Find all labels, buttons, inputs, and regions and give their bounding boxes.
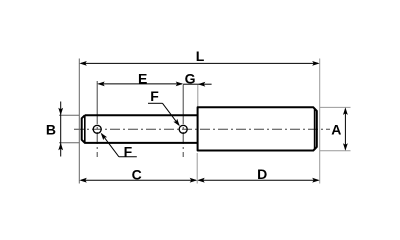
hole F left [93, 125, 101, 133]
dimension G line [183, 82, 211, 87]
pin small cylinder body [82, 115, 198, 143]
dimension A line [343, 107, 348, 150]
svg-text:B: B [46, 122, 56, 138]
node hole centerline right [182, 85, 184, 113]
dimension C line [79, 178, 197, 183]
pin large cylinder body [198, 107, 317, 150]
label F lower with leader [101, 133, 137, 160]
wire extension line right (L/D) [319, 59, 321, 184]
hole F right [179, 125, 187, 133]
wire extension line B top [59, 114, 79, 116]
wire centerline horizontal axis [74, 128, 330, 130]
wire extension line G right [197, 84, 199, 107]
node hole centerline left [96, 81, 98, 112]
svg-text:G: G [185, 71, 196, 87]
svg-text:D: D [257, 166, 267, 182]
svg-text:C: C [132, 167, 142, 183]
pin large cylinder chamfer junction line [314, 108, 316, 150]
svg-text:L: L [196, 48, 205, 64]
dimension B line [58, 102, 63, 157]
dimension L line [79, 61, 319, 66]
wire extension line step (C/D) [196, 153, 198, 184]
label F upper with leader [148, 88, 180, 126]
svg-text:E: E [138, 70, 147, 86]
dimension D line [197, 178, 320, 183]
wire extension line A bottom [320, 150, 351, 152]
wire extension line left (L/C) [78, 59, 80, 184]
svg-text:F: F [150, 88, 159, 104]
dimension E line [97, 82, 183, 87]
wire extension line A top [320, 106, 351, 108]
svg-text:A: A [331, 121, 341, 137]
pin small cylinder chamfer junction line [84, 116, 86, 143]
wire extension line B bottom [59, 142, 79, 144]
